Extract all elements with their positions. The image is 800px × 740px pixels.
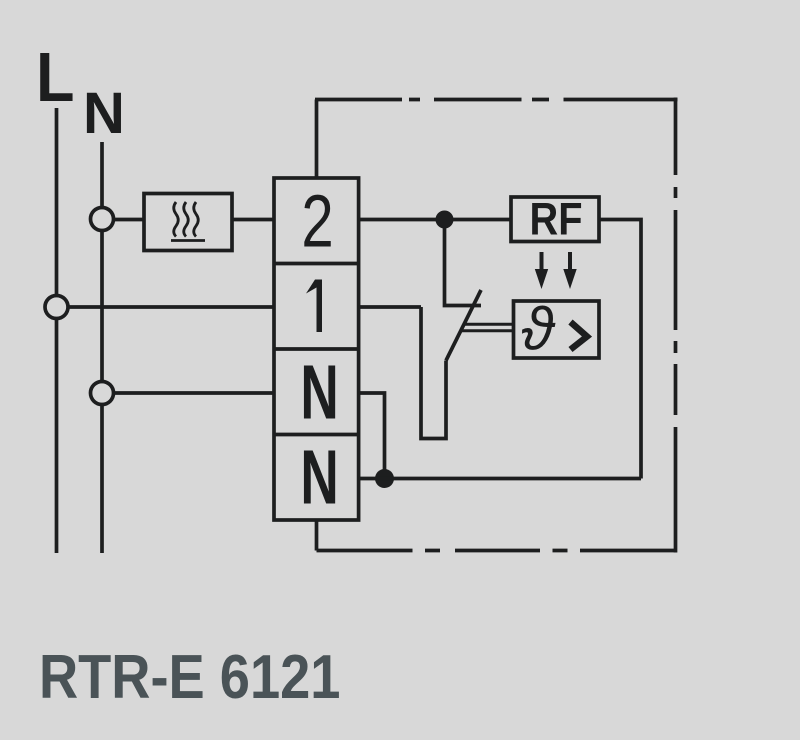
wire N bus bottom — [359, 477, 641, 481]
heater load box — [144, 194, 232, 251]
wire enclosure top stub — [315, 100, 319, 179]
svg-text:L: L — [36, 39, 74, 117]
svg-text:RTR-E 6121: RTR-E 6121 — [39, 643, 340, 712]
terminal circle on N line (top) — [91, 208, 114, 231]
arrow right under RF — [563, 252, 576, 289]
wire terminal 2 to RF — [359, 218, 511, 222]
terminal 1 label — [306, 280, 322, 333]
svg-text:2: 2 — [301, 181, 333, 264]
enclosure dash-dot right border — [674, 98, 678, 553]
thermostat box — [514, 301, 600, 358]
switch blade — [446, 290, 481, 361]
svg-text:RF: RF — [530, 194, 583, 245]
svg-text:N: N — [83, 81, 125, 146]
wire enclosure bottom stub — [315, 520, 319, 551]
terminal circle on L line — [45, 296, 68, 319]
heating element symbol — [171, 202, 205, 241]
wire L vertical — [55, 108, 59, 553]
svg-text:N: N — [300, 350, 338, 436]
wire RF to right bus — [599, 220, 641, 479]
svg-text:ϑ: ϑ — [521, 296, 556, 363]
actuator linkage double line — [461, 324, 512, 331]
switch fixed contact from junction — [445, 228, 482, 306]
wire terminal 1 to switch — [359, 305, 421, 309]
terminal block outline — [274, 178, 359, 520]
enclosure dash-dot top border — [315, 98, 678, 102]
wire N circle to terminal N — [114, 391, 275, 395]
wire heater to terminal 2 — [232, 218, 274, 222]
relay RF box — [511, 197, 599, 242]
arrow left under RF — [535, 252, 548, 289]
thermostat greater-than symbol — [571, 322, 588, 350]
wire N circle to heater — [114, 218, 145, 222]
svg-text:N: N — [300, 435, 338, 521]
enclosure dash-dot bottom border — [317, 549, 676, 553]
terminal block dividers — [274, 264, 359, 435]
wire N vertical — [100, 142, 104, 553]
wire terminal N down — [359, 393, 385, 479]
terminal circle on N line (lower) — [91, 382, 114, 405]
wire L circle to terminal 1 — [68, 305, 274, 309]
junction dot on N bus — [375, 469, 394, 488]
wire switch blade return — [421, 307, 446, 439]
junction dot at node 2/RF — [436, 211, 454, 229]
